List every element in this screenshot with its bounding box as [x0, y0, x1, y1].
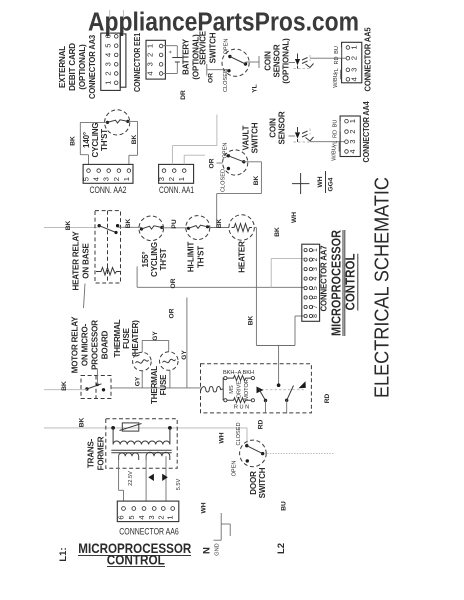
svg-text:3: 3 [348, 140, 357, 144]
svg-text:COIN: COIN [269, 118, 278, 138]
SECTION: big labels [329, 177, 394, 398]
connector AA2 [82, 164, 134, 183]
svg-text:4: 4 [312, 276, 319, 280]
wire coin sensor 2 to AA4 pin 3 [310, 141, 345, 143]
svg-text:N: N [202, 547, 213, 554]
switch S3 door switch [240, 440, 267, 467]
svg-text:RD: RD [334, 56, 340, 64]
svg-text:6: 6 [117, 515, 126, 519]
svg-text:SENSOR: SENSOR [278, 111, 287, 144]
wire to AA7 pin2 [271, 258, 304, 287]
thermal fuse F2 [160, 352, 179, 371]
wire relay to 155 thst [118, 226, 141, 228]
label THERMAL FUSE (HEATER) [113, 319, 140, 357]
connector AA4 [340, 116, 360, 157]
svg-text:R U N: R U N [234, 405, 249, 411]
wire L1 BK to transformer primary and door switch [44, 428, 247, 445]
wire coin sensor 1 to AA5 pin 2 [310, 57, 346, 59]
wire door switch to L2 [265, 453, 335, 455]
svg-text:WH: WH [201, 502, 208, 513]
svg-text:CONN. AA2: CONN. AA2 [90, 185, 127, 196]
wire AA3 stubs to top edge [110, 10, 124, 34]
wire BK into motor relay [44, 389, 87, 391]
svg-text:GG4: GG4 [328, 177, 335, 191]
svg-text:5: 5 [82, 177, 91, 181]
wire service switch right YL stub [246, 56, 260, 68]
svg-text:2: 2 [156, 515, 165, 519]
svg-text:140°: 140° [82, 132, 91, 148]
wire 140 thst to AA2 pin5 [80, 122, 106, 164]
thermostat 140 cycling [105, 110, 130, 135]
wire OR service switch to AA1 pin2 [172, 115, 217, 165]
switch S1 service switch [222, 39, 249, 92]
svg-text:3: 3 [104, 62, 113, 66]
ground GG4 junction cross [292, 173, 309, 194]
SECTION: middle [44, 211, 331, 430]
svg-text:PU: PU [171, 219, 178, 228]
svg-text:EXTERNAL: EXTERNAL [58, 46, 67, 88]
svg-text:TH'ST: TH'ST [100, 129, 109, 151]
wire vault switch right to heater row [217, 162, 262, 228]
coin sensor U2 optocoupler [289, 127, 314, 142]
svg-text:BKH–A BKH: BKH–A BKH [223, 370, 254, 376]
wire AA7 pin8 stub [295, 315, 304, 317]
svg-text:DR: DR [180, 90, 187, 100]
label THERMAL FUSE [150, 366, 168, 404]
svg-text:WH: WH [219, 432, 226, 443]
svg-text:2: 2 [348, 129, 357, 133]
svg-text:BK: BK [248, 316, 255, 326]
svg-text:2: 2 [167, 177, 176, 181]
svg-text:DOOR: DOOR [249, 471, 258, 495]
svg-text:FUSE: FUSE [159, 374, 168, 396]
wire AA1 pin1 [184, 155, 205, 164]
label MICROPROCESSOR CONTROL right side [329, 229, 358, 336]
svg-text:GY: GY [135, 376, 142, 386]
svg-text:4: 4 [137, 515, 146, 519]
svg-text:GND: GND [215, 543, 221, 555]
svg-text:3: 3 [146, 62, 155, 66]
svg-text:(HEATER): (HEATER) [131, 320, 140, 357]
label HI-LIMIT thermostat [187, 242, 206, 273]
svg-text:BK: BK [274, 227, 281, 237]
label 155 cycling thermostat [141, 242, 168, 277]
thermostat 155 cycling [139, 216, 164, 241]
svg-text:OR: OR [209, 158, 216, 168]
svg-text:YL: YL [252, 84, 259, 92]
label BATTERY (OPTIONAL) [182, 34, 201, 80]
svg-text:CLOSED: CLOSED [221, 169, 227, 192]
svg-text:CYCLING: CYCLING [91, 123, 100, 158]
label 140 cycling thermostat [82, 123, 109, 158]
wire service switch left stub OR [207, 64, 229, 76]
thermal fuse F1 (heater) [133, 352, 152, 371]
connector AA1 [157, 164, 194, 183]
svg-text:OR: OR [170, 278, 177, 288]
svg-text:CLOSED: CLOSED [223, 69, 229, 92]
svg-text:DRIVE: DRIVE [237, 381, 243, 398]
svg-text:WH: WH [317, 176, 324, 187]
svg-text:4: 4 [146, 71, 155, 75]
svg-text:2: 2 [146, 53, 155, 57]
label MICROPROCESSOR CONTROL bottom [78, 540, 191, 568]
svg-text:RD: RD [258, 420, 265, 430]
svg-text:FUSE: FUSE [122, 327, 131, 349]
svg-text:3: 3 [312, 267, 319, 271]
svg-text:COIN: COIN [264, 51, 273, 71]
svg-text:SWITCH: SWITCH [258, 467, 267, 498]
svg-text:5.5V: 5.5V [176, 478, 182, 490]
connector AA3 [101, 33, 126, 90]
label COIN SENSOR (OPTIONAL) [264, 38, 291, 84]
svg-text:3: 3 [157, 177, 166, 181]
wire heater down to motor centrifugal common [254, 228, 295, 386]
labels AA5 wire colors BU RD YL WH [333, 46, 342, 88]
connector AA5 [342, 42, 362, 83]
svg-text:OR: OR [208, 73, 215, 83]
svg-text:HEATER RELAY: HEATER RELAY [72, 231, 81, 291]
switch S2 vault switch [221, 143, 248, 192]
svg-text:1: 1 [166, 515, 175, 519]
svg-text:BU: BU [281, 501, 288, 511]
svg-text:3: 3 [102, 177, 111, 181]
svg-text:5: 5 [312, 286, 319, 290]
svg-text:L2: L2 [276, 543, 287, 554]
wire secondary 2 leads with arrows [146, 456, 168, 501]
svg-text:THERMAL: THERMAL [113, 319, 122, 357]
thermostat hi-limit [186, 216, 210, 240]
svg-text:BU: BU [333, 120, 339, 128]
svg-text:ON BASE: ON BASE [82, 242, 91, 278]
ground symbol GND [214, 513, 231, 540]
svg-text:BK: BK [131, 135, 138, 145]
svg-text:22.5V: 22.5V [128, 471, 134, 486]
label SERVICE SWITCH [199, 30, 218, 65]
labels AA4 wire colors BU RD YL WH [332, 120, 341, 161]
svg-text:OPEN: OPEN [232, 461, 238, 477]
svg-text:WH: WH [291, 212, 298, 223]
svg-text:2: 2 [312, 257, 319, 261]
battery B1 (optional) [163, 46, 182, 74]
svg-text:VAULT: VAULT [242, 125, 251, 150]
svg-text:1: 1 [350, 45, 359, 49]
svg-text:GY: GY [152, 331, 159, 341]
svg-text:(OPTIONAL): (OPTIONAL) [282, 38, 291, 84]
svg-text:3: 3 [350, 68, 359, 72]
svg-text:ELECTRICAL SCHEMATIC: ELECTRICAL SCHEMATIC [371, 177, 394, 398]
svg-text:HI-LIMIT: HI-LIMIT [187, 242, 196, 273]
SECTION: top connectors [58, 10, 373, 228]
svg-text:BU: BU [334, 46, 340, 54]
svg-text:2: 2 [112, 177, 121, 181]
label MOTOR RELAY ON MICRO-PROCESSOR BOARD [71, 316, 110, 373]
svg-text:BOARD: BOARD [101, 330, 110, 359]
svg-text:GY: GY [181, 350, 188, 360]
svg-text:CONNECTOR AA4: CONNECTOR AA4 [362, 101, 371, 163]
svg-text:2: 2 [104, 71, 113, 75]
svg-text:TRANS-: TRANS- [87, 438, 96, 468]
labels WH GG4 [317, 171, 335, 193]
svg-text:4: 4 [104, 53, 113, 57]
svg-text:CONNECTOR AA3: CONNECTOR AA3 [88, 34, 97, 99]
SECTION: bottom [44, 418, 334, 568]
svg-text:CONN. AA1: CONN. AA1 [159, 185, 194, 196]
svg-text:TH'ST: TH'ST [197, 246, 206, 268]
svg-text:BK: BK [216, 219, 223, 229]
motor M1 drive motor box [201, 364, 312, 413]
svg-text:PROCESSOR: PROCESSOR [91, 320, 100, 370]
svg-text:OR: OR [169, 308, 176, 318]
svg-text:SWITCH: SWITCH [251, 122, 260, 153]
leader line heater relay [84, 284, 86, 309]
svg-text:OPEN: OPEN [224, 39, 230, 55]
svg-text:8: 8 [312, 314, 319, 318]
svg-text:L1:: L1: [58, 547, 69, 561]
svg-text:BK: BK [70, 136, 77, 146]
svg-text:5: 5 [104, 44, 113, 48]
svg-text:CONNECTOR AA7: CONNECTOR AA7 [320, 245, 329, 312]
svg-text:RD: RD [324, 394, 331, 404]
svg-text:CONNECTOR AA6: CONNECTOR AA6 [119, 527, 179, 538]
wire hi-limit to heater [209, 227, 229, 229]
svg-text:3: 3 [147, 515, 156, 519]
label COIN SENSOR [269, 111, 287, 144]
svg-text:CONNECTOR EE1: CONNECTOR EE1 [133, 32, 142, 92]
svg-text:BATTERY: BATTERY [182, 38, 191, 75]
centrifugal switch in motor [257, 381, 306, 413]
svg-text:BK: BK [65, 221, 72, 231]
relay K2 motor relay on microprocessor board [81, 370, 111, 399]
wire secondary 1 to AA6 pin6 [119, 456, 124, 501]
svg-text:DEBIT CARD: DEBIT CARD [68, 43, 77, 91]
coin sensor U1 optocoupler (optional) [289, 54, 314, 69]
wire to AA7 pin5 [137, 267, 304, 288]
wire BK bus into heater relay [44, 227, 98, 229]
relay K1 heater relay on base [95, 211, 121, 283]
svg-text:155°: 155° [141, 252, 150, 268]
svg-text:1: 1 [122, 177, 131, 181]
svg-text:HEATER: HEATER [238, 241, 247, 273]
label TRANS-FORMER [87, 436, 106, 470]
svg-text:CYCLING: CYCLING [150, 242, 159, 277]
svg-text:(OPTIONAL): (OPTIONAL) [78, 44, 87, 90]
label HEATER RELAY ON BASE [72, 231, 91, 291]
label VAULT SWITCH [242, 122, 260, 153]
svg-text:MICROPROCESSOR: MICROPROCESSOR [329, 229, 344, 336]
wire OR drop to motor node [186, 298, 188, 388]
wire 140 thst to AA2 pin1 [129, 121, 138, 164]
label EXTERNAL DEBIT CARD (OPTIONAL) CONNECTOR AA3 [58, 34, 97, 99]
svg-text:CONTROL: CONTROL [344, 253, 358, 310]
svg-text:SENSOR: SENSOR [273, 44, 282, 77]
svg-text:MOTOR: MOTOR [244, 379, 250, 400]
svg-text:W/BU: W/BU [333, 73, 339, 88]
svg-text:1: 1 [146, 44, 155, 48]
svg-text:4: 4 [92, 177, 101, 181]
svg-text:RD: RD [333, 130, 339, 138]
svg-text:CONNECTOR AA5: CONNECTOR AA5 [364, 27, 373, 92]
svg-text:CLOSED: CLOSED [236, 422, 242, 445]
transformer T1 [106, 419, 177, 469]
connector AA6 [117, 501, 179, 521]
svg-text:1: 1 [104, 81, 113, 85]
svg-text:THERMAL: THERMAL [150, 366, 159, 404]
svg-text:AppliancePartsPros.com: AppliancePartsPros.com [88, 9, 359, 37]
svg-text:MOTOR RELAY: MOTOR RELAY [71, 316, 80, 373]
svg-text:W/BU: W/BU [332, 146, 338, 161]
label DOOR SWITCH [249, 467, 267, 498]
svg-text:ON MICRO-: ON MICRO- [81, 323, 90, 366]
svg-text:4: 4 [350, 77, 359, 81]
svg-text:+: + [168, 50, 174, 53]
svg-text:FORMER: FORMER [97, 436, 106, 470]
svg-text:TH'ST: TH'ST [159, 248, 168, 270]
svg-text:MS: MS [229, 385, 235, 394]
svg-text:1: 1 [177, 177, 186, 181]
svg-text:4: 4 [348, 149, 357, 153]
svg-text:BK: BK [79, 418, 86, 428]
svg-text:2: 2 [350, 56, 359, 60]
wire 155 to hi-limit [162, 227, 188, 229]
svg-text:BK: BK [253, 176, 260, 186]
svg-text:OPEN: OPEN [223, 143, 229, 159]
svg-text:6: 6 [312, 295, 319, 299]
svg-text:CONTROL: CONTROL [107, 552, 165, 568]
wire thermal fuse tops [142, 340, 169, 352]
svg-text:BK: BK [125, 219, 132, 229]
connector EE1 [146, 40, 166, 79]
svg-text:7: 7 [312, 305, 319, 309]
connector AA7 [302, 244, 320, 321]
svg-text:SWITCH: SWITCH [209, 32, 218, 63]
wire thermal fuse bottoms to motor node [111, 370, 201, 388]
svg-text:1: 1 [312, 248, 319, 252]
svg-text:5: 5 [127, 515, 136, 519]
svg-text:1: 1 [348, 119, 357, 123]
wire vault switch left stub [217, 162, 223, 164]
svg-text:BK: BK [61, 381, 68, 391]
heater R1 [229, 215, 254, 240]
